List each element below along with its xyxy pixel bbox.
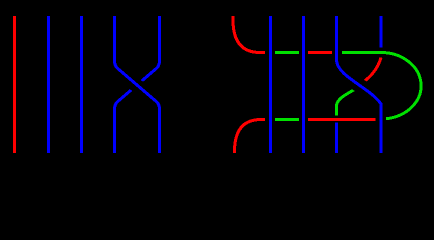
blue strand R2 xyxy=(269,16,272,153)
blue strand R5 top xyxy=(380,16,383,48)
green arc R5 under lower piece xyxy=(337,88,359,116)
right braid diagram xyxy=(233,16,421,153)
red bottom horizontal long seg xyxy=(308,118,376,121)
blue strand R3 xyxy=(302,16,305,153)
strand L1 red xyxy=(13,16,16,153)
green bottom horizontal seg xyxy=(275,118,299,121)
red bottom-left corner xyxy=(235,120,266,154)
strand L3 blue xyxy=(80,16,83,153)
red arc R5 under upper piece xyxy=(362,58,381,84)
strand L4 blue over xyxy=(115,16,160,153)
red strand top-left corner xyxy=(233,16,265,53)
strand L5 blue under (continuous, gapped by halo) xyxy=(115,16,160,153)
red top horizontal seg xyxy=(308,51,332,54)
left braid diagram xyxy=(15,16,160,153)
halo of R4 S-curve xyxy=(337,62,382,104)
blue R5 bottom xyxy=(335,123,338,154)
green top horizontal + right semicircle xyxy=(342,52,421,118)
strand L2 blue xyxy=(47,16,50,153)
halo of L4 over strand xyxy=(114,61,158,107)
green top horizontal seg xyxy=(275,51,299,54)
blue strand R4 S-curve over xyxy=(337,16,382,153)
